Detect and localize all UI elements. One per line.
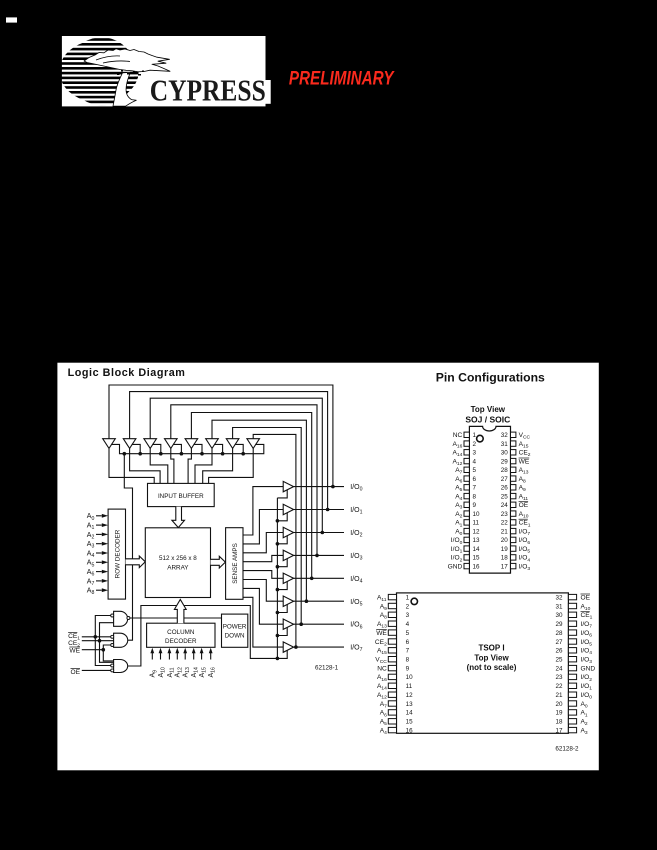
wire sense amp output 5 to output buffer [243,580,283,602]
wire feedback I/O2 to input buffer triangle [150,398,322,532]
wire data 4 into input buffer [188,448,191,483]
svg-text:23: 23 [501,511,509,518]
svg-text:512 x 256 x 8: 512 x 256 x 8 [159,555,197,562]
junction dots control signals [94,635,106,652]
svg-text:1: 1 [406,594,410,601]
address input A9 [150,648,159,678]
wire I/O2 line [294,532,344,534]
svg-text:ROW DECODER: ROW DECODER [114,529,121,578]
wire feedback I/O5 to input buffer triangle [212,420,306,601]
TSOP pin 9 [377,665,409,672]
wire CE1 distribution [95,616,111,666]
svg-text:8: 8 [406,657,410,664]
SOJ package pins and labels [448,432,531,572]
SOJ pin 26 [501,485,526,494]
label I/O5 [350,599,362,608]
input data buffer triangle 2 [123,439,136,449]
SOJ pin 6 [455,476,476,485]
svg-text:DOWN: DOWN [225,632,245,639]
SOJ pin 28 [501,467,529,476]
input data buffer triangle 5 [185,439,198,449]
node I/O7 [294,645,298,649]
column decoder block [147,623,215,647]
svg-text:13: 13 [473,537,481,544]
wire data 1 into input buffer [130,448,161,483]
svg-text:22: 22 [501,520,509,527]
gate G1 (chip enable / power down control) [111,611,130,626]
wire sense amp output 6 to output buffer [243,588,283,624]
svg-text:32: 32 [555,594,563,601]
svg-text:16: 16 [473,563,481,570]
svg-text:ARRAY: ARRAY [167,565,189,572]
svg-text:27: 27 [501,476,509,483]
svg-text:24: 24 [555,665,563,672]
SOJ pin 1 [453,432,477,439]
bus arrow array to sense amps [211,556,226,568]
output buffer triangle I/O1 [283,504,293,514]
SOJ pin 12 [455,528,480,537]
SOJ pin 20 [501,537,531,546]
wire I/O7 line [294,646,344,648]
svg-text:30: 30 [501,450,509,457]
svg-text:18: 18 [555,719,563,726]
SOJ pin 7 [455,485,476,494]
SOJ pin 14 [451,546,480,555]
TSOP pin 11 [377,683,413,692]
svg-text:12: 12 [473,528,481,535]
svg-text:13: 13 [406,701,414,708]
svg-text:23: 23 [555,674,563,681]
svg-text:30: 30 [555,612,563,619]
bus arrow row decoder to array [126,556,146,568]
signal CE2 [68,640,114,649]
TSOP pin 10 [377,674,413,683]
TSOP center text [467,644,517,673]
wire I/O5 line [294,600,344,602]
wire sense amp output 0 to output buffer [243,487,283,535]
svg-text:31: 31 [501,441,509,448]
svg-text:9: 9 [473,502,477,509]
address input A2 [87,532,108,541]
wire WE distribution [103,645,113,661]
SOJ pin 13 [451,537,480,546]
output buffer triangle I/O5 [283,596,293,607]
wire enable step triangle 4 [173,444,181,453]
svg-text:2: 2 [406,603,410,610]
input data buffer triangle 1 [103,439,116,449]
TSOP pin 27 [555,639,592,648]
svg-text:25: 25 [501,493,509,500]
svg-text:PRELIMINARY: PRELIMINARY [289,67,395,89]
TSOP pin 32 [555,594,590,601]
wire enable step triangle 2 [132,444,140,453]
svg-text:4: 4 [473,458,477,465]
address input A14 [191,648,200,678]
svg-text:6: 6 [473,476,477,483]
Cypress tree silhouette [84,49,170,106]
SOJ pin 23 [501,511,529,520]
svg-text:7: 7 [406,648,410,655]
wire feedback I/O4 to input buffer triangle [191,413,311,579]
wire gate G1 output to power down [130,617,222,619]
address input A3 [87,541,108,550]
node I/O6 [299,622,303,626]
label I/O0 [350,484,362,493]
wire CE2 distribution [100,623,114,663]
output buffer triangle I/O3 [283,550,293,560]
SOJ pin 10 [455,511,480,520]
SOJ pin 22 [501,519,531,528]
input data buffer triangle 6 [206,439,219,449]
address input A12 [175,648,184,678]
wire enable step triangle 7 [235,444,243,453]
svg-text:24: 24 [501,502,509,509]
wire enable step triangle 6 [214,444,222,453]
svg-text:19: 19 [555,710,563,717]
svg-text:27: 27 [555,639,563,646]
svg-text:4: 4 [406,621,410,628]
wire enable step triangle 5 [194,444,202,453]
row decoder block [108,509,125,599]
svg-text:11: 11 [406,683,413,690]
output buffer triangle I/O7 [283,642,293,652]
SOJ pin 17 [501,563,531,572]
wire feedback I/O6 to input buffer triangle [233,428,302,625]
gate G2 (write enable control) [111,633,128,647]
SOJ pin 5 [455,467,476,476]
node I/O0 [331,485,335,489]
signal CE1 [68,633,111,642]
svg-text:15: 15 [406,719,414,726]
svg-text:NC: NC [453,432,463,439]
svg-text:NC: NC [377,665,387,672]
TSOP pin 18 [555,719,587,728]
address input A4 [87,550,108,559]
SOJ pin 11 [455,520,479,529]
wire sense amp output 2 to output buffer [243,533,283,553]
wire feedback I/O0 to input buffer triangle [109,385,333,487]
input buffer block [148,483,215,506]
TSOP package pins and labels [375,594,595,736]
svg-text:28: 28 [555,630,563,637]
output buffer triangle I/O4 [283,573,293,583]
TSOP pin 31 [555,603,590,612]
svg-text:20: 20 [501,537,509,544]
TSOP pin 17 [555,727,587,736]
SOJ pin 31 [501,441,529,450]
svg-text:20: 20 [555,701,563,708]
svg-text:Top View: Top View [471,405,506,414]
node I/O5 [305,599,309,603]
svg-text:18: 18 [501,555,509,562]
svg-text:OE: OE [581,594,591,601]
gate G3 (output enable control) [111,660,128,673]
svg-text:Logic Block Diagram: Logic Block Diagram [68,367,186,379]
svg-text:SOJ / SOIC: SOJ / SOIC [465,415,510,425]
svg-text:26: 26 [501,485,509,492]
TSOP pin 24 [555,665,595,672]
bus arrow input buffer to array [172,507,185,528]
TSOP pin 8 [375,657,409,666]
SOJ pin 19 [501,546,531,555]
svg-text:9: 9 [406,665,410,672]
svg-text:GND: GND [448,563,463,570]
address input A11 [167,648,176,678]
wire I/O6 line [294,623,344,625]
label I/O6 [350,622,362,631]
address input A8 [87,588,108,597]
TSOP pin 14 [380,710,413,719]
svg-text:POWER: POWER [223,623,247,630]
svg-text:(not to scale): (not to scale) [467,663,517,672]
address input A10 [158,648,167,678]
SOJ pin 16 [448,563,480,570]
label I/O1 [350,507,362,516]
node I/O2 [321,531,325,535]
TSOP pin 26 [555,648,592,657]
SOJ pin 32 [501,432,531,441]
wire enable tap to output buffer 6 [277,627,287,635]
SOJ pin 27 [501,476,526,485]
svg-text:10: 10 [473,511,481,518]
SOJ pin 3 [453,450,477,459]
wire data 0 into input buffer [109,448,154,483]
SOJ pin 21 [501,528,531,537]
svg-text:OE: OE [519,502,529,509]
svg-text:5: 5 [473,467,477,474]
SOJ pin 15 [451,555,480,564]
svg-text:7: 7 [473,485,477,492]
input data buffer triangle 8 [247,439,260,449]
svg-text:31: 31 [555,603,563,610]
svg-text:62128-1: 62128-1 [315,664,339,671]
svg-text:GND: GND [581,665,596,672]
output buffer triangle I/O6 [283,619,293,629]
svg-text:26: 26 [555,648,563,655]
svg-text:OE: OE [71,669,81,676]
wire I/O1 line [294,509,344,511]
svg-text:5: 5 [406,630,410,637]
wire feedback I/O7 to input buffer triangle [253,434,296,647]
svg-text:2: 2 [473,441,477,448]
TSOP pin 21 [555,692,592,701]
input data buffer triangle 3 [144,439,157,449]
output buffer triangle I/O2 [283,527,293,537]
svg-text:Pin Configurations: Pin Configurations [436,370,545,384]
SOJ pin 18 [501,555,531,564]
TSOP pin 15 [380,719,413,728]
svg-text:3: 3 [406,612,410,619]
input data buffer triangle 4 [165,439,178,449]
svg-text:17: 17 [501,563,509,570]
svg-text:COLUMN: COLUMN [167,629,195,636]
SOJ pin 9 [455,502,476,511]
svg-text:1: 1 [473,432,477,439]
SOJ pin 8 [455,493,476,502]
svg-text:21: 21 [555,692,563,699]
Cypress globe stripes [58,38,146,108]
svg-text:11: 11 [473,520,480,527]
SOJ pin 24 [501,502,529,509]
TSOP pin 22 [555,683,592,692]
label I/O7 [350,645,362,654]
wire I/O4 line [294,577,344,579]
svg-text:29: 29 [555,621,563,628]
wire enable tap to output buffer 3 [277,559,287,567]
label I/O2 [350,530,362,539]
wire enable step triangle 3 [152,444,160,453]
wire write enable from gate G2 up to bus [124,454,132,641]
node I/O3 [315,554,319,558]
wire output enable chain [276,498,278,659]
svg-text:INPUT BUFFER: INPUT BUFFER [158,493,204,500]
wire data 5 into input buffer [195,448,212,483]
svg-text:14: 14 [406,710,414,717]
svg-text:62128-2: 62128-2 [555,745,579,752]
TSOP pin 2 [380,603,410,612]
address input A7 [87,578,108,587]
wire write-enable bus to input triangles [111,444,264,453]
content panel [57,363,598,771]
svg-text:28: 28 [501,467,509,474]
address input A13 [183,648,192,678]
wire data 6 into input buffer [203,448,233,483]
svg-text:15: 15 [473,555,481,562]
node I/O4 [310,577,314,581]
TSOP pin 28 [555,630,592,639]
wire data 2 into input buffer [150,448,168,483]
svg-text:SENSE AMPS: SENSE AMPS [232,543,239,584]
svg-text:WE: WE [519,458,530,465]
svg-text:32: 32 [501,432,509,439]
wire I/O0 line [294,486,344,488]
wire sense amp output 3 to output buffer [243,555,283,561]
SOJ pin 4 [453,458,477,467]
svg-text:WE: WE [69,647,80,654]
svg-text:Top View: Top View [474,653,509,662]
power down block [222,614,248,647]
TSOP pin 16 [380,727,413,736]
wire sense amp output 7 to output buffer [243,597,283,647]
svg-text:16: 16 [406,727,414,734]
wire data 3 into input buffer [171,448,174,483]
SOJ/SOIC package body [469,426,510,573]
TSOP I package body [397,593,569,733]
svg-text:29: 29 [501,458,509,465]
signal WE [69,647,105,654]
output buffer triangle I/O0 [283,481,293,491]
svg-text:10: 10 [406,674,414,681]
wire feedback I/O3 to input buffer triangle [171,405,317,556]
address input A1 [87,523,108,532]
svg-text:19: 19 [501,546,509,553]
label I/O3 [350,553,362,562]
wire enable tap to output buffer 5 [277,605,287,613]
wire data 7 into input buffer [209,448,254,483]
svg-text:22: 22 [555,683,563,690]
wire enable tap to output buffer 7 [277,650,287,658]
address input A16 [208,648,217,678]
svg-text:12: 12 [406,692,414,699]
wire gate G3 output to output enable chain [127,606,277,667]
TSOP pin 30 [555,612,592,621]
wire enable tap to output buffer 4 [277,582,287,590]
bus arrow column decoder to array [174,600,186,624]
Cypress logo box [62,36,271,106]
wire I/O3 line [294,554,344,556]
signal OE [71,668,111,675]
svg-text:WE: WE [376,630,387,637]
TSOP pin 19 [555,710,587,719]
svg-text:21: 21 [501,528,509,535]
node I/O1 [326,508,330,512]
svg-text:DECODER: DECODER [165,638,197,645]
TSOP pin 5 [376,630,409,637]
TSOP pin 6 [375,639,410,648]
SOJ pin 2 [453,441,477,450]
address input A6 [87,569,108,578]
TSOP pin 23 [555,674,592,683]
TSOP pin 20 [555,701,587,710]
SOJ pin 30 [501,450,531,459]
TSOP pin 3 [380,612,410,621]
svg-text:CYPRESS: CYPRESS [150,74,266,108]
TSOP pin 12 [377,692,413,701]
svg-text:25: 25 [555,657,563,664]
svg-text:3: 3 [473,450,477,457]
CYPRESS wordmark [150,74,266,108]
TSOP pin 1 [377,594,410,603]
junction dots on output enable chain [276,519,280,660]
wire enable tap to output buffer 0 [277,490,287,498]
address input A0 [87,513,108,522]
TSOP pin 25 [555,657,592,666]
TSOP pin 13 [380,701,413,710]
svg-text:17: 17 [555,727,563,734]
TSOP pin 4 [377,621,410,630]
wire enable tap to output buffer 2 [277,536,287,544]
input data buffer triangle 7 [226,439,239,449]
junction dots on enable bus [123,452,246,456]
page corner mark [6,17,17,22]
address input A5 [87,560,108,569]
SOJ pin 25 [501,493,529,502]
sense amps block [226,528,243,600]
wire enable tap to output buffer 1 [277,513,287,521]
svg-text:TSOP I: TSOP I [478,644,504,653]
memory array block 512x256x8 [145,528,210,598]
address input A15 [199,648,208,678]
PRELIMINARY stamp [289,67,395,89]
TSOP pin 1 indicator [411,598,417,604]
wire sense amp output 1 to output buffer [243,510,283,544]
TSOP pin 29 [555,621,592,630]
SOJ pin 1 indicator [477,435,484,442]
wire feedback I/O1 to input buffer triangle [130,392,328,510]
label I/O4 [350,576,362,585]
SOJ pin 29 [501,458,530,465]
wire sense amp output 4 to output buffer [243,571,283,579]
svg-text:8: 8 [473,493,477,500]
svg-text:14: 14 [473,546,481,553]
TSOP pin 7 [377,648,410,657]
svg-text:6: 6 [406,639,410,646]
